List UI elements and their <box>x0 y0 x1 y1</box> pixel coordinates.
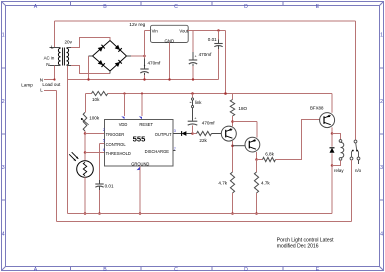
wire Vout +12V <box>188 30 226 32</box>
node Q2 junction <box>255 158 258 161</box>
node L primary top terminal <box>50 47 61 49</box>
svg-text:100k: 100k <box>89 116 100 121</box>
svg-text:C: C <box>174 267 178 272</box>
wire RESET pin from rail <box>141 92 143 94</box>
svg-text:12v reg: 12v reg <box>129 22 145 28</box>
svg-text:L: L <box>51 45 54 50</box>
wire coil bottom to junction <box>332 160 341 165</box>
wire OUTPUT pin <box>173 133 181 135</box>
svg-text:555: 555 <box>133 134 146 143</box>
wire VDD pin from rail <box>123 92 125 94</box>
transistor Q1 <box>221 126 236 141</box>
wire lamp N vertical down left side <box>67 66 69 214</box>
svg-text:6: 6 <box>103 148 105 152</box>
svg-text:2: 2 <box>380 99 383 105</box>
capacitor 470mf timing <box>188 120 198 122</box>
contact hooks <box>352 151 354 158</box>
svg-text:C: C <box>174 4 178 10</box>
wire 6.8k to BFX88 base <box>276 120 321 160</box>
relay contact common <box>354 140 357 143</box>
wire BFX88 top lead to +12 rail <box>331 94 333 113</box>
wire primary bottom to N node <box>54 66 56 80</box>
svg-text:3: 3 <box>380 165 383 171</box>
svg-text:E: E <box>316 4 320 10</box>
contact lever <box>356 143 357 152</box>
IC U1 555 timer <box>105 120 174 167</box>
wire to TRIGGER pin <box>85 133 105 135</box>
wire down to LDR <box>84 153 86 161</box>
LDR R4 light dependent resistor <box>77 161 94 178</box>
svg-text:1: 1 <box>380 33 383 39</box>
wire to THRESHOLD pin <box>85 152 105 154</box>
wire to Q2 base <box>233 145 246 147</box>
svg-text:TRIGGER: TRIGGER <box>106 132 125 137</box>
svg-text:BFX88: BFX88 <box>310 105 324 110</box>
svg-text:0.01: 0.01 <box>105 184 114 189</box>
svg-text:modified Dec 2016: modified Dec 2016 <box>277 243 319 249</box>
resistor 22k <box>193 133 197 135</box>
contact terminal left <box>350 157 353 160</box>
wire +12V down to mid rail <box>225 31 227 94</box>
wire lamp L vertical down left side <box>56 91 58 222</box>
wire to relay coil top <box>332 134 341 140</box>
wire LDR to ground rail <box>84 177 86 213</box>
svg-text:3: 3 <box>174 129 176 133</box>
svg-text:A: A <box>34 4 38 10</box>
svg-text:470mf: 470mf <box>199 52 212 57</box>
svg-text:2: 2 <box>2 99 5 105</box>
wire regulator GND to ground rail <box>169 43 171 80</box>
diode D6 flyback <box>331 134 333 147</box>
wire CONTROL pin <box>100 143 105 145</box>
svg-text:2: 2 <box>103 128 105 132</box>
svg-text:0.01: 0.01 <box>208 37 217 42</box>
capacitor 470mf smoothing <box>140 68 148 70</box>
svg-text:Vout: Vout <box>179 29 188 34</box>
wire AC live top rail <box>55 20 356 22</box>
svg-text:GROUND: GROUND <box>131 162 149 167</box>
node relay bottom junction <box>331 164 334 167</box>
svg-text:N: N <box>46 62 49 67</box>
wire switch to lamp live rail <box>351 160 353 222</box>
svg-text:DISCHARGE: DISCHARGE <box>145 149 170 154</box>
wire bridge plus to regulator input <box>127 55 132 57</box>
node trigger junction <box>84 132 87 135</box>
pin stub discharge <box>173 150 176 152</box>
wire unregulated +V up to Vin <box>144 31 146 59</box>
wire secondary bottom to bridge bottom <box>67 65 72 67</box>
wire emitter node to Q2 <box>233 121 258 123</box>
resistor 4.7k Q2 <box>256 160 258 173</box>
node N primary bottom terminal <box>50 65 61 67</box>
svg-text:4.7k: 4.7k <box>261 180 270 185</box>
resistor 4.7k Q1 <box>230 172 234 193</box>
svg-text:470mf: 470mf <box>148 60 161 65</box>
svg-text:D: D <box>244 4 248 10</box>
svg-text:link: link <box>195 100 202 105</box>
svg-text:Lamp: Lamp <box>21 83 33 88</box>
svg-text:n/o: n/o <box>355 168 362 173</box>
svg-text:RESET: RESET <box>139 122 153 127</box>
svg-text:18O: 18O <box>238 106 247 111</box>
svg-text:+: + <box>195 54 197 58</box>
resistor 10k <box>92 91 108 95</box>
wire AC live drop to transformer primary <box>54 21 56 48</box>
node Q1 emitter junction <box>231 120 234 123</box>
node threshold junction <box>84 151 87 154</box>
contact terminal right n/o <box>357 157 360 160</box>
wire ground rail horizontal <box>68 79 219 81</box>
wire N stub <box>44 79 55 81</box>
svg-text:VDD: VDD <box>119 122 128 127</box>
node output junction <box>191 132 194 135</box>
node relay top junction <box>331 132 334 135</box>
wire bridge minus to ground rail <box>89 55 93 57</box>
wire GROUND pin to ground rail <box>139 166 141 214</box>
wire 22k to Q1 base <box>212 133 222 135</box>
svg-text:3: 3 <box>2 165 5 171</box>
svg-text:B: B <box>103 267 107 272</box>
svg-text:20v: 20v <box>65 39 73 44</box>
capacitor 0.01 control <box>95 183 103 185</box>
svg-text:L: L <box>40 88 43 93</box>
svg-text:10k: 10k <box>92 97 100 102</box>
wire link chain from +12 rail <box>191 92 194 95</box>
svg-text:Load out: Load out <box>42 82 61 87</box>
svg-text:1: 1 <box>2 33 5 39</box>
svg-text:5: 5 <box>103 138 105 142</box>
svg-text:6.8k: 6.8k <box>265 151 274 156</box>
wire switched live from top rail <box>355 21 357 140</box>
wire Q1 collector down <box>232 141 234 172</box>
diode D5 output <box>182 131 187 136</box>
svg-text:THRESHOLD: THRESHOLD <box>106 151 131 156</box>
wire lamp L stub <box>44 90 57 92</box>
svg-text:OUTPUT: OUTPUT <box>155 132 172 137</box>
wire rail corner down to 100k <box>85 94 87 113</box>
capacitor 0.01 regulator output <box>218 31 220 40</box>
svg-text:AC in: AC in <box>44 55 55 60</box>
svg-text:relay: relay <box>334 168 344 173</box>
svg-text:E: E <box>316 267 320 272</box>
svg-text:Vin: Vin <box>152 29 159 34</box>
wire junction down to threshold node <box>84 134 86 153</box>
resistor 6.8k <box>257 159 263 161</box>
wire secondary top to bridge top <box>67 47 72 49</box>
wire relay junction to ground rail <box>331 166 333 214</box>
relay coil <box>339 140 342 143</box>
bridge rectifier D1-D4 <box>93 41 111 57</box>
node Q2 base junction <box>231 144 234 147</box>
svg-text:470mf: 470mf <box>202 121 215 126</box>
resistor 18O collector load <box>232 94 234 100</box>
svg-text:D: D <box>244 267 248 272</box>
svg-text:+: + <box>144 64 146 68</box>
svg-text:22k: 22k <box>199 138 207 143</box>
svg-text:CONTROL: CONTROL <box>106 142 127 147</box>
transistor Q2 <box>245 137 260 152</box>
wire ground bottom rail <box>68 213 333 215</box>
link jumper <box>191 98 193 100</box>
wire BFX88 bottom lead <box>331 127 333 133</box>
capacitor 470mf regulator output <box>192 31 194 53</box>
wire Q2 lower lead down <box>256 152 258 160</box>
wire +12V mid rail <box>86 93 92 95</box>
svg-text:4: 4 <box>380 232 383 238</box>
svg-text:4: 4 <box>2 232 5 238</box>
wire n/o stub <box>358 160 360 164</box>
svg-text:B: B <box>103 4 107 10</box>
wire lamp live bottom rail <box>57 221 352 223</box>
potentiometer 100k <box>83 112 87 131</box>
transformer T1 <box>58 48 60 52</box>
regulator U2 12v reg <box>151 25 189 42</box>
svg-text:A: A <box>34 267 38 272</box>
svg-text:4.7k: 4.7k <box>218 180 227 185</box>
